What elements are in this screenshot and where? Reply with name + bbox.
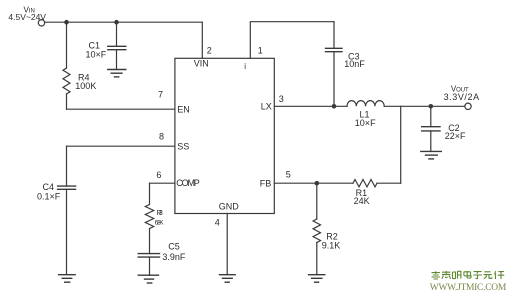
wire C2 bottom lead	[430, 131, 432, 152]
svg-text:10×F: 10×F	[355, 118, 376, 128]
wire LX pin 3	[274, 105, 347, 107]
svg-text:8: 8	[159, 131, 164, 141]
wire GND pin 4	[226, 214, 228, 275]
ground under C1	[108, 70, 126, 77]
capacitor C2	[422, 127, 440, 131]
capacitor C5	[138, 254, 159, 258]
wire R1 to output rail	[377, 182, 401, 184]
wire R3 to C5	[149, 229, 151, 254]
svg-text:7: 7	[158, 89, 163, 99]
svg-text:R3: R3	[157, 210, 163, 217]
resistor R3	[145, 205, 153, 229]
svg-text:C4: C4	[43, 182, 55, 192]
wire EN pin 7	[67, 108, 175, 110]
wire C3 top lead	[333, 22, 335, 49]
svg-text:EN: EN	[177, 104, 190, 114]
output terminal VOUT	[465, 103, 471, 109]
svg-text:9.1K: 9.1K	[322, 240, 341, 250]
resistor R2	[313, 219, 320, 242]
node VOUT junction dot	[429, 104, 434, 109]
svg-text:C5: C5	[168, 241, 180, 251]
wire C2 top lead	[430, 106, 432, 126]
svg-text:10nF: 10nF	[344, 59, 365, 69]
wire C5 bottom lead	[149, 257, 151, 275]
svg-text:4.5V~24V: 4.5V~24V	[8, 12, 46, 22]
svg-text:i: i	[244, 62, 246, 71]
svg-text:COMP: COMP	[176, 178, 200, 188]
svg-text:6.8K: 6.8K	[155, 220, 165, 227]
svg-text:5: 5	[286, 169, 291, 179]
ground under C5	[138, 275, 158, 283]
ground under C4	[59, 275, 76, 283]
node A junction dot	[64, 20, 69, 25]
resistor R4	[63, 68, 70, 94]
svg-text:WWW.JTMIC.COM: WWW.JTMIC.COM	[430, 283, 507, 293]
input terminal VIN	[38, 20, 44, 26]
svg-text:3.9nF: 3.9nF	[162, 252, 186, 262]
svg-text:GND: GND	[219, 201, 240, 211]
svg-text:VIN: VIN	[194, 59, 209, 69]
wire R2 top lead	[316, 183, 318, 219]
wire COMP pin 6	[150, 182, 175, 184]
capacitor C4	[58, 186, 76, 189]
svg-text:3: 3	[279, 94, 284, 104]
inductor L1	[347, 101, 384, 107]
wire R4 top lead	[66, 22, 68, 68]
svg-text:LX: LX	[261, 102, 272, 112]
wire pin2 drop	[201, 22, 203, 58]
node LX junction dot	[332, 104, 337, 109]
svg-text:100K: 100K	[75, 81, 96, 91]
wire SS pin 8	[67, 145, 175, 147]
svg-text:1: 1	[258, 45, 263, 55]
wire COMP down to R3	[149, 183, 151, 204]
capacitor C3	[326, 48, 343, 51]
wire C1 top lead	[116, 22, 118, 46]
resistor R1	[353, 180, 377, 187]
svg-text:0.1×F: 0.1×F	[37, 192, 61, 202]
wire R4 bottom lead to EN	[66, 94, 68, 109]
wire L1 to VOUT	[384, 105, 465, 107]
svg-text:4: 4	[215, 217, 220, 227]
node FB junction dot	[315, 181, 320, 186]
ground under C2	[421, 151, 442, 159]
svg-text:FB: FB	[260, 178, 272, 188]
op-amp U1 main IC body	[175, 58, 274, 213]
wire FB pin 5	[274, 182, 353, 184]
svg-text:24K: 24K	[354, 196, 370, 206]
wire R2 bottom lead	[316, 243, 318, 275]
ground under pin 4	[220, 275, 236, 283]
svg-text:10×F: 10×F	[86, 50, 107, 60]
svg-text:6: 6	[156, 170, 161, 180]
svg-text:3.3V/2A: 3.3V/2A	[444, 92, 480, 102]
wire pin1 rail to C3	[250, 22, 334, 59]
wire output feedback vertical	[400, 106, 402, 183]
wire C1 bottom lead	[116, 50, 118, 70]
capacitor C1	[108, 46, 126, 49]
node B junction dot	[114, 20, 119, 25]
svg-text:2: 2	[207, 46, 212, 56]
wire top rail from VIN terminal to pin 2	[45, 21, 203, 23]
wire SS down to C4	[66, 146, 68, 186]
svg-text:SS: SS	[177, 141, 189, 151]
wire C3 bottom lead to LX node	[333, 52, 335, 107]
ground under R2	[309, 275, 325, 283]
wire C4 bottom lead	[66, 189, 68, 274]
watermark line 1 : 嘉泰姆电子元件 drawn as vector strokes	[432, 271, 505, 279]
svg-text:22×F: 22×F	[445, 131, 466, 141]
